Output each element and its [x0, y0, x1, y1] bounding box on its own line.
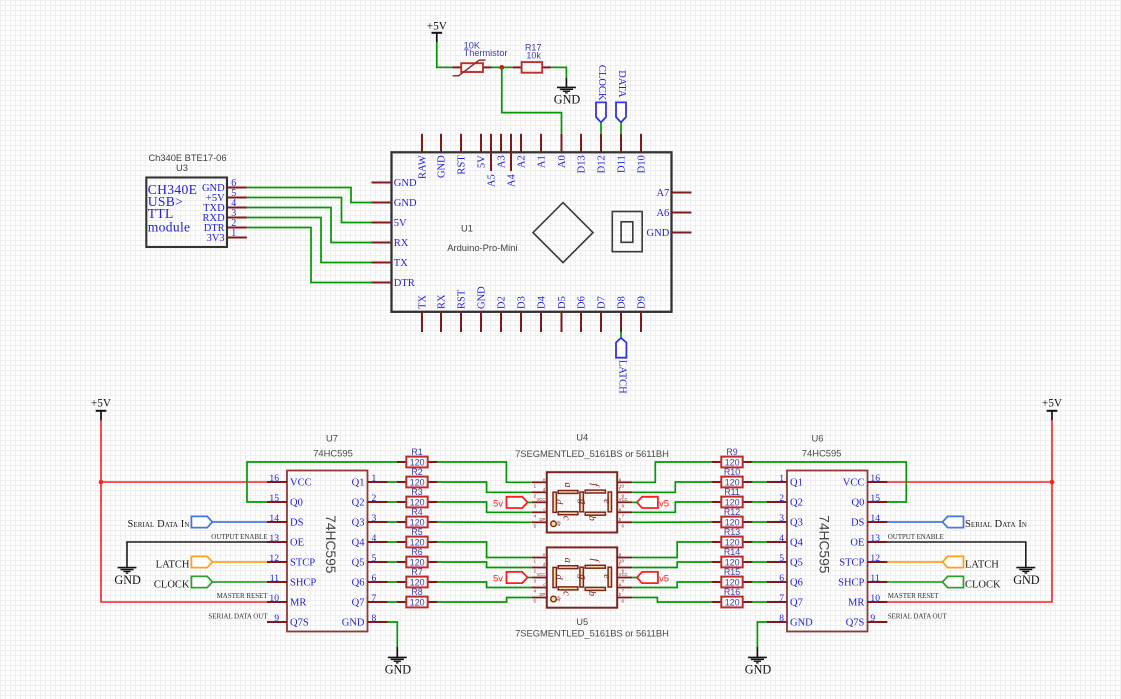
- U1 decoration diamond: [533, 203, 593, 263]
- svg-text:R15: R15: [724, 567, 740, 577]
- wire R3 to U4 pin4: [437, 502, 532, 512]
- svg-text:R4: R4: [411, 507, 422, 517]
- U5 decimal point dp: [551, 596, 557, 602]
- U3 pin 6 GND: [227, 187, 247, 189]
- svg-text:R1: R1: [411, 447, 422, 457]
- U7 right pin 8 GND: [368, 621, 388, 623]
- svg-text:1: 1: [534, 483, 537, 488]
- U1 left pin DTR: [372, 282, 392, 284]
- svg-text:A1: A1: [536, 155, 547, 168]
- svg-text:1: 1: [779, 473, 784, 484]
- svg-text:120: 120: [410, 538, 425, 548]
- U1 top pin 5V: [480, 134, 482, 153]
- wire U7 Q4 to R5: [388, 541, 398, 543]
- U6 left pin 5 Q5: [767, 561, 787, 563]
- wire U7 Q1 to R2: [388, 481, 398, 483]
- svg-text:Serial Data In: Serial Data In: [127, 519, 189, 530]
- svg-text:GND: GND: [385, 663, 412, 677]
- svg-text:Q2: Q2: [352, 498, 365, 509]
- svg-text:74HC595: 74HC595: [323, 515, 338, 574]
- junction +5V/VCC U7: [99, 480, 104, 485]
- wire thermistor to junction to R17: [492, 66, 513, 68]
- svg-text:120: 120: [725, 558, 740, 568]
- IC U7 74HC595 body: [287, 471, 368, 632]
- svg-text:e: e: [601, 574, 612, 579]
- svg-text:VCC: VCC: [290, 478, 312, 489]
- wire U3 +5V to U1 5V: [247, 198, 372, 223]
- wire U6 OE to ground: [887, 542, 1025, 568]
- svg-text:Q7S: Q7S: [290, 618, 309, 629]
- svg-text:3: 3: [534, 503, 537, 508]
- resistor R3 120: [397, 501, 407, 503]
- U1 left pin RX: [372, 242, 392, 244]
- svg-text:A7: A7: [656, 188, 669, 199]
- svg-text:SHCP: SHCP: [290, 578, 316, 589]
- svg-text:SERIAL DATA OUT: SERIAL DATA OUT: [888, 612, 948, 620]
- U1 bottom pin RX: [440, 312, 442, 332]
- svg-text:+5V: +5V: [91, 397, 112, 409]
- svg-text:8: 8: [779, 613, 784, 624]
- svg-text:D11: D11: [616, 155, 627, 173]
- U1 top pin D12: [600, 134, 602, 153]
- wire CLOCK to U7 SHCP: [212, 581, 267, 583]
- svg-text:R5: R5: [411, 527, 422, 537]
- IC U6 74HC595 body: [787, 471, 868, 632]
- U5 segment c bar: [558, 587, 578, 590]
- svg-text:6: 6: [779, 573, 784, 584]
- wire U7 Q0 up to R1: [247, 462, 397, 502]
- svg-text:e: e: [543, 552, 546, 557]
- svg-text:120: 120: [725, 478, 740, 488]
- svg-text:TX: TX: [417, 295, 428, 309]
- wire U3 TXD to U1 RX: [247, 208, 372, 243]
- U6 left pin 4 Q4: [767, 541, 787, 543]
- U3 pin 3 RXD: [227, 217, 247, 219]
- svg-text:VCC: VCC: [536, 497, 545, 502]
- svg-text:7SEGMENTLED_5161BS or 5611BH: 7SEGMENTLED_5161BS or 5611BH: [515, 628, 669, 639]
- svg-text:module: module: [148, 220, 191, 235]
- U3 pin 1 3V3: [227, 237, 247, 239]
- svg-text:GND: GND: [114, 573, 141, 587]
- svg-text:6: 6: [621, 599, 624, 604]
- svg-text:VCC: VCC: [536, 572, 545, 577]
- U5 left pin 1 e: [532, 557, 547, 559]
- U1 top pin GND: [440, 134, 442, 153]
- svg-text:Arduino-Pro-Mini: Arduino-Pro-Mini: [447, 242, 517, 253]
- U1 decoration rectangle: [612, 212, 642, 252]
- U5 segment e bar: [608, 567, 611, 587]
- svg-text:8: 8: [621, 503, 624, 508]
- svg-text:RST: RST: [456, 155, 467, 175]
- display U4 7-segment body: [547, 472, 617, 532]
- svg-text:120: 120: [410, 498, 425, 508]
- svg-text:5v: 5v: [493, 574, 503, 585]
- resistor R17 10k: [513, 66, 522, 68]
- svg-text:13: 13: [870, 533, 880, 544]
- svg-text:b: b: [586, 591, 597, 596]
- U6 right pin 14 DS: [867, 521, 887, 523]
- svg-text:5v: 5v: [493, 499, 503, 510]
- svg-text:120: 120: [725, 598, 740, 608]
- U1 top pin D11: [620, 134, 622, 153]
- U1 bottom pin D3: [520, 312, 522, 332]
- svg-text:5V: 5V: [394, 218, 407, 229]
- wire R8 to U5 pin5: [437, 598, 532, 603]
- ground GND (U6 OE): [1016, 567, 1035, 569]
- svg-text:7: 7: [372, 593, 377, 604]
- svg-text:120: 120: [725, 458, 740, 468]
- svg-text:Q7: Q7: [790, 598, 803, 609]
- wire U5 pin g to R13: [632, 542, 711, 558]
- U4 left pin 3 VCC: [532, 501, 547, 503]
- svg-text:R9: R9: [726, 447, 737, 457]
- wire U7 Q2 to R3: [388, 501, 398, 503]
- svg-text:dp: dp: [556, 521, 562, 527]
- svg-text:15: 15: [870, 493, 880, 504]
- U1 bottom pin GND: [480, 312, 482, 332]
- svg-text:f: f: [589, 483, 600, 488]
- svg-text:74HC595: 74HC595: [313, 448, 353, 459]
- U4 right pin 8 VCC: [617, 501, 632, 503]
- svg-text:CLOCK: CLOCK: [965, 579, 1001, 590]
- U6 right pin 15 Q0: [867, 501, 887, 503]
- svg-text:Q1: Q1: [790, 478, 803, 489]
- svg-text:TTL: TTL: [148, 206, 174, 221]
- svg-text:10: 10: [269, 593, 279, 604]
- wire R7 to U5 pin4: [437, 582, 532, 588]
- U1 top pin A5: [490, 134, 492, 171]
- svg-text:16: 16: [870, 473, 880, 484]
- U4 left pin 5 DP: [532, 521, 547, 523]
- resistor R14 120: [712, 561, 722, 563]
- U6 left pin 2 Q2: [767, 501, 787, 503]
- svg-text:7: 7: [621, 589, 624, 594]
- svg-text:VCC: VCC: [843, 478, 865, 489]
- svg-text:Q4: Q4: [352, 538, 366, 549]
- svg-text:U3: U3: [176, 163, 188, 173]
- resistor R6 120: [397, 561, 407, 563]
- svg-text:R3: R3: [411, 487, 422, 497]
- ground GND (U7 pin8): [396, 647, 398, 657]
- svg-text:120: 120: [410, 578, 425, 588]
- U6 left pin 3 Q3: [767, 521, 787, 523]
- svg-text:11: 11: [270, 573, 279, 584]
- svg-text:Q0: Q0: [290, 498, 303, 509]
- U4 right pin 9 f: [617, 491, 632, 493]
- svg-text:g: g: [577, 499, 588, 504]
- svg-text:Q7: Q7: [352, 598, 365, 609]
- svg-text:Thermistor: Thermistor: [464, 48, 508, 58]
- svg-text:1: 1: [231, 228, 236, 239]
- U6 right pin 10 MR: [867, 601, 887, 603]
- U4 left pin 2 d: [532, 491, 547, 493]
- svg-text:8: 8: [621, 579, 624, 584]
- svg-text:4: 4: [779, 533, 784, 544]
- U5 left pin 2 d: [532, 567, 547, 569]
- wire +5V down to thermistor: [437, 42, 453, 67]
- svg-text:120: 120: [410, 478, 425, 488]
- svg-text:12: 12: [870, 553, 880, 564]
- svg-text:+5V: +5V: [1042, 397, 1063, 409]
- net flag DATA (to D11): [616, 102, 626, 122]
- svg-text:12: 12: [269, 553, 279, 564]
- svg-text:+5V: +5V: [427, 21, 448, 33]
- wire R5 to U5 pin1: [437, 542, 532, 558]
- svg-text:9: 9: [870, 613, 875, 624]
- junction node thermistor/R17/A0: [499, 65, 504, 70]
- wire U7 Q7 to R8: [388, 601, 398, 603]
- resistor R12 120: [712, 521, 722, 523]
- U5 left pin 5 DP: [532, 597, 547, 599]
- net flag CLOCK (to D12): [596, 102, 606, 122]
- svg-text:TX: TX: [394, 258, 408, 269]
- svg-text:14: 14: [269, 513, 279, 524]
- wire U7 Q3 to R4: [388, 521, 398, 523]
- svg-text:U7: U7: [326, 433, 338, 444]
- U1 top pin A1: [540, 134, 542, 153]
- U1 top pin A4: [510, 134, 512, 171]
- wire U5 pin f to R14: [632, 562, 711, 568]
- svg-text:74HC595: 74HC595: [817, 515, 832, 574]
- svg-text:120: 120: [410, 558, 425, 568]
- wire U5 pin a to R15: [632, 582, 711, 588]
- svg-text:U1: U1: [461, 223, 473, 234]
- U1 bottom pin D2: [500, 312, 502, 332]
- wire R13 to U6 Q4: [752, 541, 767, 543]
- svg-text:3V3: 3V3: [207, 233, 225, 244]
- svg-text:LATCH: LATCH: [156, 559, 190, 570]
- svg-text:b: b: [586, 516, 597, 521]
- U1 bottom pin TX: [421, 312, 423, 332]
- svg-text:v5: v5: [659, 574, 669, 585]
- svg-text:D9: D9: [636, 296, 647, 309]
- svg-text:A6: A6: [656, 208, 669, 219]
- svg-text:13: 13: [269, 533, 279, 544]
- svg-text:120: 120: [725, 498, 740, 508]
- U4 left pin 1 e: [532, 481, 547, 483]
- svg-text:e: e: [543, 477, 546, 482]
- svg-text:U4: U4: [576, 432, 588, 443]
- svg-text:5: 5: [534, 523, 537, 528]
- U7 right pin 5 Q5: [368, 561, 388, 563]
- U1 right pin GND: [672, 232, 692, 234]
- svg-text:D7: D7: [596, 296, 607, 309]
- svg-text:6: 6: [621, 523, 624, 528]
- svg-text:D5: D5: [557, 296, 568, 309]
- U4 right pin 6 b: [617, 521, 632, 523]
- wire U7 OE to ground: [127, 542, 267, 568]
- svg-text:D10: D10: [636, 155, 647, 173]
- svg-text:D13: D13: [576, 155, 587, 173]
- wire U6 STCP to LATCH: [887, 561, 942, 563]
- svg-text:DS: DS: [851, 518, 865, 529]
- svg-text:Q1: Q1: [352, 478, 365, 489]
- svg-text:f: f: [589, 558, 600, 563]
- U5 right pin 10 g: [617, 557, 632, 559]
- wire U5 pin b to R16: [632, 598, 711, 603]
- svg-text:1: 1: [534, 559, 537, 564]
- U6 left pin 7 Q7: [767, 601, 787, 603]
- wire U6 DS to SERIAL DATA IN: [887, 521, 942, 523]
- net flag LATCH (right): [943, 556, 964, 567]
- svg-text:10k: 10k: [526, 51, 541, 61]
- svg-text:v5: v5: [659, 499, 669, 510]
- svg-text:GND: GND: [1013, 573, 1040, 587]
- wire U3 DTR to U1 DTR: [247, 228, 372, 283]
- svg-text:SHCP: SHCP: [838, 578, 864, 589]
- svg-text:GND: GND: [394, 178, 417, 189]
- resistor R2 120: [397, 481, 407, 483]
- svg-text:120: 120: [725, 578, 740, 588]
- U7 left pin 10 MR: [267, 601, 287, 603]
- svg-text:CLOCK: CLOCK: [596, 65, 607, 101]
- svg-text:dp: dp: [556, 596, 562, 602]
- U7 left pin 11 SHCP: [267, 581, 287, 583]
- svg-text:120: 120: [410, 518, 425, 528]
- U1 right pin A7: [672, 192, 692, 194]
- wire +5V rail left (to VCC and MR of U7): [101, 420, 267, 602]
- svg-text:D3: D3: [516, 296, 527, 309]
- op IC U1 Arduino-Pro-Mini body: [392, 152, 672, 311]
- U1 left pin TX: [372, 262, 392, 264]
- U1 top pin D13: [580, 134, 582, 153]
- U7 right pin 2 Q2: [368, 501, 388, 503]
- resistor R16 120: [712, 601, 722, 603]
- wire U7 GND to ground: [388, 622, 398, 647]
- svg-text:DP: DP: [539, 592, 545, 597]
- ground GND (U7 OE): [118, 567, 137, 569]
- U5 left pin 3 VCC: [532, 577, 547, 579]
- svg-text:7SEGMENTLED_5161BS or 5611BH: 7SEGMENTLED_5161BS or 5611BH: [515, 448, 669, 459]
- wire U4 pin b to R12: [632, 521, 711, 523]
- U1 left pin 5V: [372, 222, 392, 224]
- svg-text:D2: D2: [496, 296, 507, 309]
- svg-text:GND: GND: [790, 618, 813, 629]
- U1 top pin RST: [460, 134, 462, 153]
- U4 segment c bar: [558, 512, 578, 515]
- wire R12 to U6 Q3: [752, 521, 767, 523]
- svg-text:GND: GND: [394, 198, 417, 209]
- svg-text:Q5: Q5: [790, 558, 803, 569]
- svg-text:Q0: Q0: [852, 498, 865, 509]
- U4 segment b bar: [585, 512, 605, 515]
- svg-text:MASTER RESET: MASTER RESET: [888, 592, 940, 600]
- svg-text:Serial Data In: Serial Data In: [965, 519, 1027, 530]
- svg-text:CLOCK: CLOCK: [154, 579, 190, 590]
- svg-text:OUTPUT ENABLE: OUTPUT ENABLE: [211, 533, 267, 541]
- svg-text:Q5: Q5: [352, 558, 365, 569]
- svg-text:d: d: [553, 574, 564, 580]
- wire junction to pin A0: [502, 67, 562, 133]
- U1 right pin A6: [672, 212, 692, 214]
- U5 segment f bar: [585, 565, 605, 568]
- svg-text:LATCH: LATCH: [965, 559, 999, 570]
- svg-text:STCP: STCP: [290, 558, 315, 569]
- U4 right pin 10 g: [617, 481, 632, 483]
- thermistor TH 10K: [452, 66, 461, 68]
- svg-text:R8: R8: [411, 587, 422, 597]
- U4 segment g bar: [580, 492, 584, 512]
- svg-text:9: 9: [274, 613, 279, 624]
- svg-text:R7: R7: [411, 567, 422, 577]
- resistor R1 120: [397, 461, 407, 463]
- svg-text:D12: D12: [596, 155, 607, 173]
- svg-text:120: 120: [410, 458, 425, 468]
- U6 left pin 6 Q6: [767, 581, 787, 583]
- svg-text:10: 10: [870, 593, 880, 604]
- svg-text:3: 3: [372, 513, 377, 524]
- U6 right pin 12 STCP: [867, 561, 887, 563]
- resistor R11 120: [712, 501, 722, 503]
- U7 right pin 3 Q3: [368, 521, 388, 523]
- svg-text:4: 4: [534, 589, 537, 594]
- svg-text:GND: GND: [647, 228, 670, 239]
- U6 right pin 13 OE: [867, 541, 887, 543]
- wire R6 to U5 pin2: [437, 562, 532, 568]
- U7 left pin 12 STCP: [267, 561, 287, 563]
- svg-text:A5: A5: [486, 174, 497, 187]
- wire SERIAL DATA IN to U7 DS: [212, 521, 267, 523]
- svg-text:e: e: [601, 499, 612, 504]
- wire R1 to U4 pin1: [437, 462, 532, 482]
- U4 segment f bar: [585, 490, 605, 493]
- U5 right pin 8 VCC: [617, 577, 632, 579]
- wire U4 pin g to R9: [632, 462, 711, 482]
- svg-text:U5: U5: [576, 616, 588, 627]
- U4 segment d bar: [553, 492, 556, 512]
- U1 top pin A2: [520, 134, 522, 153]
- svg-text:RX: RX: [394, 238, 409, 249]
- U1 top pin A3: [500, 134, 502, 153]
- wire U3 GND to U1 GND: [247, 188, 372, 203]
- module U3 CH340E USB-TTL body: [146, 178, 227, 248]
- svg-text:11: 11: [870, 573, 879, 584]
- svg-text:A2: A2: [516, 155, 527, 168]
- resistor R15 120: [712, 581, 722, 583]
- U7 left pin 9 Q7S: [267, 621, 287, 623]
- U7 right pin 7 Q7: [368, 601, 388, 603]
- wire R14 to U6 Q5: [752, 561, 767, 563]
- U1 top pin D10: [640, 134, 642, 153]
- net flag CLOCK (right): [943, 576, 964, 587]
- U1 bottom pin D6: [580, 312, 582, 332]
- wire R10 to U6 Q1: [752, 481, 767, 483]
- svg-text:OE: OE: [290, 538, 304, 549]
- svg-text:SERIAL DATA OUT: SERIAL DATA OUT: [208, 612, 268, 620]
- resistor R4 120: [397, 521, 407, 523]
- U5 segment a bar: [558, 566, 578, 569]
- svg-text:120: 120: [725, 518, 740, 528]
- svg-text:d: d: [553, 499, 564, 505]
- svg-text:Q6: Q6: [352, 578, 365, 589]
- svg-text:120: 120: [725, 538, 740, 548]
- svg-text:15: 15: [269, 493, 279, 504]
- svg-text:R11: R11: [724, 487, 740, 497]
- U6 left pin 8 GND: [767, 621, 787, 623]
- svg-text:R16: R16: [724, 587, 740, 597]
- svg-text:STCP: STCP: [839, 558, 864, 569]
- U5 right pin 9 f: [617, 567, 632, 569]
- svg-text:5: 5: [534, 599, 537, 604]
- svg-text:GND: GND: [745, 663, 772, 677]
- svg-text:LATCH: LATCH: [616, 360, 627, 394]
- resistor R13 120: [712, 541, 722, 543]
- svg-text:VCC: VCC: [619, 572, 628, 577]
- U4 segment a bar: [558, 491, 578, 494]
- svg-text:a: a: [562, 482, 573, 487]
- svg-text:74HC595: 74HC595: [802, 448, 842, 459]
- svg-text:Q4: Q4: [790, 538, 804, 549]
